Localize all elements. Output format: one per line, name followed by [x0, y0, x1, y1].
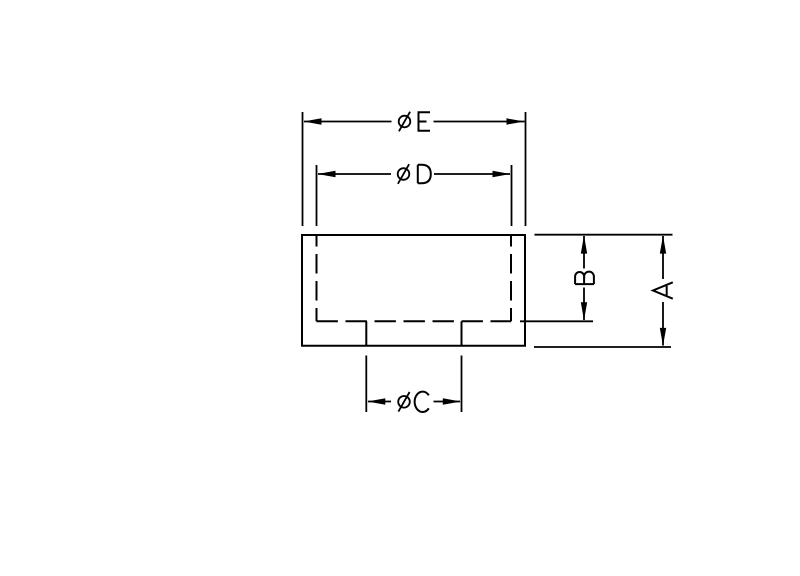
arrowhead oD right: [493, 171, 511, 177]
hidden inner wall right (dashed): [510, 235, 512, 321]
hidden inner wall left (dashed): [316, 235, 318, 321]
lead pin left: [365, 321, 367, 345]
arrowhead B top: [581, 236, 587, 254]
arrowhead A top: [660, 236, 666, 254]
arrowhead oC right: [443, 398, 461, 404]
label oC: [398, 392, 429, 412]
arrowhead oC left: [367, 398, 385, 404]
dimension line A: [662, 236, 664, 346]
extension line oD left: [316, 165, 318, 226]
extension line oC right: [461, 356, 463, 413]
dimension line oE: [304, 121, 525, 123]
extension line middle right: [520, 320, 593, 322]
dimension line B: [583, 236, 585, 320]
arrowhead oD left: [318, 171, 336, 177]
label A (rotated): [653, 282, 673, 298]
arrowhead A bottom: [660, 328, 666, 346]
extension line oE right: [525, 112, 527, 226]
extension line oD right: [511, 165, 513, 226]
label B (rotated): [575, 272, 594, 285]
label oE: [399, 112, 430, 132]
lead pin right: [461, 321, 463, 345]
arrowhead oE left: [304, 118, 322, 124]
hidden inner bottom (dashed): [317, 320, 512, 322]
extension line oC left: [365, 356, 367, 413]
extension line top right: [535, 234, 673, 236]
label oD: [398, 164, 431, 184]
extension line bottom right: [534, 346, 671, 348]
dimension line oC: [368, 401, 460, 403]
arrowhead B bottom: [581, 302, 587, 320]
body outline: [302, 235, 525, 346]
extension line oE left: [302, 112, 304, 226]
arrowhead oE right: [507, 118, 525, 124]
dimension line oD: [318, 173, 510, 175]
